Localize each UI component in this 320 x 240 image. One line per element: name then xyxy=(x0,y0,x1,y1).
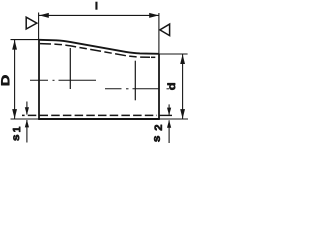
tangent tick right (cone end) xyxy=(134,61,136,101)
body outline: right end face xyxy=(158,54,160,119)
arrowhead d down xyxy=(180,109,185,119)
wire: extension line left for dimension l xyxy=(38,13,40,40)
wire: extension line bottom-right for d xyxy=(159,118,188,120)
hidden line: inner top surface last dash xyxy=(151,56,155,58)
body outline: top edge with cone slope xyxy=(39,40,159,54)
dimension s2 lower arrow (points up to outer surface) xyxy=(168,120,170,143)
label l (drawn as bar) xyxy=(95,2,97,10)
dimension s2 upper arrow (points down to inner surface) xyxy=(168,104,170,114)
wire: extension line right for dimension l xyxy=(158,13,160,54)
label s1: letter s xyxy=(13,135,19,141)
body outline: left end face xyxy=(38,40,40,120)
hidden line: inner top surface (dashed) xyxy=(40,44,150,58)
centerline: small end axis (dash-dot) xyxy=(105,88,169,90)
arrowhead l left xyxy=(39,13,49,18)
label d xyxy=(167,83,175,90)
wire: extension line top for d xyxy=(159,53,188,55)
arrowhead d up xyxy=(180,54,185,64)
tangent tick left (cone start) xyxy=(69,48,71,89)
body outline: bottom edge xyxy=(38,118,160,120)
label s2: letter s xyxy=(154,136,160,142)
weld symbol triangle left xyxy=(26,17,37,29)
weld symbol triangle right xyxy=(160,24,170,35)
arrowhead D down xyxy=(12,109,17,119)
label s2: digit 2 xyxy=(155,125,162,131)
dimension line D xyxy=(14,40,16,119)
dimension s1 upper arrow (points down to inner surface) xyxy=(26,102,28,115)
hidden line: inner bottom surface (dashed) xyxy=(22,114,157,116)
centerline: large end axis (dash-dot) xyxy=(30,79,96,81)
wire: extension line top for D xyxy=(11,39,40,41)
arrowhead D up xyxy=(12,40,17,50)
wire: inner-surface extension to s2 arrow xyxy=(159,114,172,116)
arrowhead l right xyxy=(149,13,159,18)
wire: extension line bottom-left for D xyxy=(11,118,40,120)
dimension line l xyxy=(39,14,159,16)
label s1: digit 1 xyxy=(13,127,20,132)
dimension s1 lower arrow (points up to outer surface) xyxy=(26,120,28,143)
dimension line d xyxy=(182,54,184,119)
label D xyxy=(1,75,9,85)
